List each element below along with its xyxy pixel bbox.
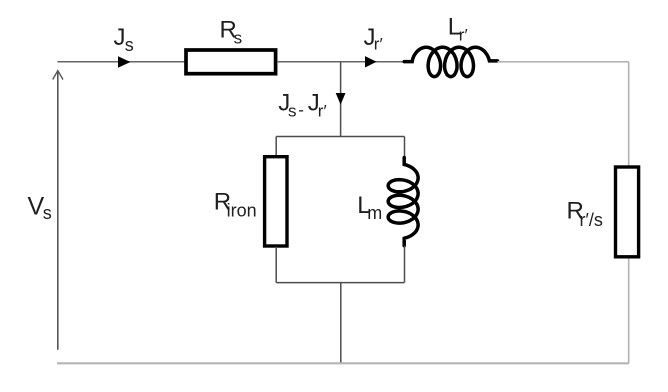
wire: center vertical from branch bottom to bottom rail bbox=[340, 283, 342, 364]
wire: branch left vertical upper (to R_iron) bbox=[275, 137, 277, 157]
current arrow Js (filled triangle on top wire) bbox=[118, 56, 130, 68]
wire: parallel branch bottom rail bbox=[276, 282, 404, 284]
wire: branch right vertical lower (L_m to bottom rail) bbox=[404, 246, 406, 283]
svg-text:s: s bbox=[288, 102, 297, 121]
inductor L_m (vertical coil) bbox=[388, 158, 418, 246]
wire: top-left horizontal from Vs node to Rs bbox=[57, 61, 185, 63]
svg-text:r′: r′ bbox=[318, 102, 327, 121]
svg-text:iron: iron bbox=[227, 201, 257, 221]
wire: right vertical light gray down to Rr'/s and bottom bbox=[628, 62, 630, 363]
wire: center vertical from top node down to parallel branch bbox=[340, 62, 342, 137]
svg-text:s: s bbox=[43, 203, 52, 223]
svg-text:r′: r′ bbox=[374, 35, 383, 54]
svg-text:s: s bbox=[234, 29, 243, 48]
svg-text:-: - bbox=[298, 101, 304, 120]
svg-text:J: J bbox=[114, 24, 126, 51]
svg-text:r′/s: r′/s bbox=[580, 210, 603, 230]
wire: left vertical Vs wire bbox=[57, 71, 59, 350]
wire: light gray from Lr' to top-right corner bbox=[498, 61, 629, 63]
resistor R_r'/s (vertical box) bbox=[616, 167, 639, 257]
resistor R_iron (vertical box) bbox=[265, 157, 287, 246]
svg-text:s: s bbox=[125, 35, 134, 55]
resistor R_s (horizontal box) bbox=[186, 50, 276, 74]
wire: bottom rail light gray bbox=[57, 362, 629, 364]
wire: horizontal from Rs to Lr' with node at center branch bbox=[277, 61, 405, 63]
current arrow Jr' (filled triangle) bbox=[365, 56, 377, 67]
svg-text:m: m bbox=[367, 203, 382, 223]
wire: parallel branch top rail bbox=[276, 136, 404, 138]
wire: branch left vertical lower (R_iron to bottom rail) bbox=[275, 247, 277, 283]
current arrow Js - Jr' (downward filled triangle) bbox=[336, 93, 346, 105]
arrowhead of Vs (open chevron pointing up) bbox=[53, 71, 63, 80]
inductor L_r' (horizontal coil) bbox=[404, 47, 497, 76]
svg-text:r′: r′ bbox=[459, 26, 468, 45]
wire: branch right vertical upper (to L_m) bbox=[404, 137, 406, 159]
